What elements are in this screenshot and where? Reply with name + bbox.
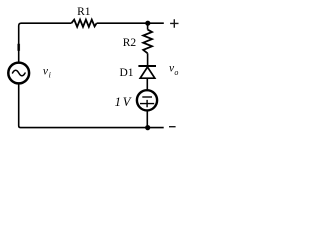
diode D1 triangle — [140, 67, 155, 78]
node top junction dot — [145, 21, 150, 26]
svg-text:R1: R1 — [77, 6, 91, 18]
minus terminal marker — [169, 126, 176, 128]
wire between R2 and D1 — [147, 53, 149, 65]
wire 1V source bottom lead — [146, 111, 148, 128]
svg-text:1: 1 — [115, 95, 121, 109]
AC source sine wave — [13, 70, 26, 76]
svg-text:o: o — [174, 68, 178, 77]
wire R2 top lead from node — [147, 23, 149, 29]
AC source vi circle — [8, 63, 29, 84]
voltage source 1V circle — [137, 90, 157, 110]
wire between D1 and 1V source — [146, 78, 148, 89]
wire top-right horizontal from R1 through node to + terminal — [97, 22, 164, 24]
resistor R2 zigzag — [143, 30, 152, 54]
wire left vertical upper segment (with slightly heavier middle portion) — [17, 44, 20, 51]
wire top-left horizontal from source branch to R1 (rounded corner) — [19, 23, 72, 62]
svg-text:i: i — [49, 70, 51, 79]
plus terminal marker — [170, 19, 178, 28]
svg-text:R2: R2 — [123, 37, 137, 49]
voltage source minus bar inside — [142, 96, 152, 98]
node bottom junction dot — [145, 125, 150, 130]
diode D1 cathode bar — [138, 65, 156, 67]
voltage source plus inside — [140, 100, 154, 107]
wire left vertical lower segment and bottom rail (rounded corner) — [19, 84, 164, 127]
resistor R1 zigzag — [71, 20, 96, 27]
svg-text:D1: D1 — [119, 67, 133, 79]
svg-text:V: V — [123, 95, 132, 109]
